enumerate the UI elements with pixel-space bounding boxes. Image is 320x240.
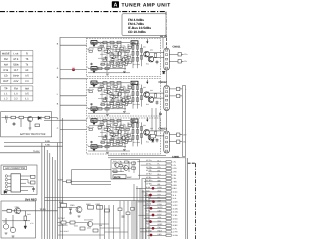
svg-text:L 2: L 2 [4, 98, 8, 101]
svg-text:CN812: CN812 [159, 81, 168, 84]
wire (top bus) [60, 37, 167, 39]
wire (right mid verticals) [152, 108, 160, 131]
transistor Q801 [27, 116, 32, 121]
svg-text:RR-: RR- [158, 183, 162, 186]
resistor R804 [35, 124, 40, 127]
wire (155 rail) [108, 154, 166, 156]
labels bottom [58, 201, 100, 227]
bus wires (left) [42, 38, 63, 240]
boundary bottom-right (dash-dot) [188, 163, 196, 239]
resistor R802 [19, 116, 24, 119]
svg-text:SW+: SW+ [183, 134, 187, 137]
wire (double rail) [45, 198, 167, 201]
wire (B.5V loop) [63, 170, 112, 185]
svg-text:2.0: 2.0 [25, 80, 29, 83]
wire (fan feeders) [134, 184, 149, 239]
svg-text:GND: GND [158, 233, 163, 236]
svg-text:C861: C861 [70, 204, 75, 207]
svg-text:530k: 530k [13, 63, 19, 66]
svg-text:CN801: CN801 [172, 156, 180, 159]
svg-text:D821: D821 [27, 213, 31, 216]
battery protector block [1, 112, 52, 137]
svg-text:ANT.CONT: ANT.CONT [84, 219, 94, 222]
svg-text:A.BU: A.BU [45, 144, 51, 147]
svg-text:0.5: 0.5 [25, 75, 29, 78]
plug SW+ [177, 133, 183, 136]
svg-text:21 FL: 21 FL [173, 227, 178, 230]
svg-text:15 MU: 15 MU [173, 207, 179, 210]
svg-text:TP: TP [4, 88, 8, 91]
capacitor C811 [32, 189, 35, 190]
wire (battery out) [44, 119, 63, 121]
wire B.BU [4, 142, 63, 144]
net labels (fan wires) [146, 159, 153, 232]
svg-text:10.7: 10.7 [13, 69, 18, 72]
wire (158 rail) [108, 157, 186, 159]
svg-text:23 GN: 23 GN [173, 234, 179, 237]
wire (battery protector main) [2, 117, 58, 119]
svg-text:FM: FM [14, 88, 18, 91]
svg-text:MUTE: MUTE [114, 176, 121, 179]
svg-text:AMP.MUTE: AMP.MUTE [58, 224, 68, 227]
svg-text:1.1: 1.1 [25, 98, 29, 101]
svg-text:IF B: IF B [4, 69, 9, 72]
transistor Q831 [115, 163, 120, 168]
svg-text:SP FL-: SP FL- [146, 163, 152, 166]
svg-text:R851 4.7K: R851 4.7K [113, 160, 122, 163]
svg-text:16 GN: 16 GN [173, 211, 179, 214]
svg-text:B.5V: B.5V [58, 179, 63, 182]
wire (pin fan) [136, 162, 166, 236]
signal level table 1 [1, 50, 33, 83]
svg-text:CN811: CN811 [173, 46, 181, 49]
svg-text:0.5: 0.5 [25, 93, 29, 96]
power amp block 2 (rear) [87, 79, 161, 116]
svg-text:L-ch: L-ch [13, 52, 18, 55]
value labels (reg) [3, 206, 34, 230]
svg-text:CN813: CN813 [159, 128, 168, 131]
svg-text:R862: R862 [86, 203, 91, 206]
svg-text:P.CN: P.CN [158, 203, 163, 206]
svg-text:1.0: 1.0 [14, 93, 18, 96]
capacitor C821 (electrolytic) [3, 218, 8, 229]
plug RR+ [177, 87, 183, 90]
resistor R811 [31, 175, 36, 178]
power amp block 1 (front) [87, 38, 161, 76]
plug RR- [177, 94, 183, 97]
resistor R866 [80, 227, 85, 230]
svg-text:87.9: 87.9 [13, 58, 18, 61]
svg-text:RL-: RL- [158, 176, 161, 179]
test points (red) on fan [152, 187, 155, 190]
svg-text:P.CONT: P.CONT [58, 217, 66, 220]
svg-text:FR+: FR+ [184, 53, 187, 56]
svg-text:HAE CONNECTOR: HAE CONNECTOR [5, 167, 25, 170]
resistor R871 [118, 208, 122, 211]
svg-text:SP RR-: SP RR- [146, 183, 152, 186]
svg-text:7 RR: 7 RR [173, 181, 178, 184]
resistor R834 [119, 165, 123, 167]
wire (bottom jogs) [58, 208, 129, 233]
svg-text:FR-: FR- [184, 60, 187, 63]
value labels (mute) [113, 160, 134, 174]
wire (reg bottom) [2, 220, 30, 222]
svg-text:SP FR+: SP FR+ [146, 166, 152, 169]
resistor R803 [45, 116, 50, 119]
transistor Q832 [124, 166, 129, 171]
wire (mute internals) [112, 161, 134, 173]
wire CN811-plugs [169, 54, 178, 61]
svg-text:TA.BU: TA.BU [33, 150, 40, 153]
svg-text:SP RL-: SP RL- [146, 176, 152, 179]
svg-text:FR+: FR+ [158, 166, 161, 169]
svg-text:FM: FM [4, 58, 8, 61]
connector CN801 pins [166, 161, 171, 237]
capacitor C822 (electrolytic) [10, 215, 15, 233]
svg-text:1 FL: 1 FL [173, 161, 177, 164]
svg-text:GND: GND [158, 210, 163, 213]
svg-text:SCL: SCL [158, 220, 162, 223]
svg-text:RR+: RR+ [158, 179, 162, 182]
wire (reg main) [2, 210, 58, 212]
svg-text:FL-: FL- [158, 163, 161, 166]
svg-text:FM R: FM R [146, 226, 151, 229]
svg-text:FR-: FR- [158, 169, 161, 172]
svg-text:B.BU: B.BU [146, 186, 151, 189]
svg-text:SP RL+: SP RL+ [146, 173, 152, 176]
svg-text:R866: R866 [74, 225, 78, 228]
svg-text:SYS.CONT: SYS.CONT [60, 230, 69, 233]
svg-text:R861: R861 [59, 201, 64, 204]
svg-text:C868: C868 [87, 227, 91, 230]
wire TA.BU [0, 152, 40, 154]
power amp block 3 (sub) [87, 118, 161, 154]
svg-text:2 FL: 2 FL [173, 164, 177, 167]
svg-text:19 SC: 19 SC [173, 221, 179, 224]
svg-text:2.2: 2.2 [14, 98, 18, 101]
resistor R835 [125, 161, 129, 163]
resistor R815 [151, 135, 156, 138]
resistor R867 [93, 229, 98, 232]
svg-text:BATTERY PROTECTOR: BATTERY PROTECTOR [20, 133, 46, 136]
resistor R851 [61, 204, 67, 208]
plug FR- [178, 60, 184, 63]
note box: gain values [122, 14, 166, 36]
wire CN812-plugs [169, 89, 176, 96]
capacitor C862 [69, 208, 72, 213]
label A TUNER AMP UNIT [112, 1, 171, 8]
capacitor C802 [13, 119, 31, 128]
svg-text:A: A [113, 3, 117, 9]
test point (red) TP1 [72, 68, 75, 71]
plug FR+ [178, 53, 184, 56]
resistor R852 [88, 206, 94, 210]
svg-text:12 IL: 12 IL [173, 197, 177, 200]
wire ACC [4, 145, 63, 147]
resistor R854 [105, 209, 110, 212]
svg-text:1kHz: 1kHz [13, 75, 19, 78]
svg-text:TUNER AMP UNIT: TUNER AMP UNIT [122, 3, 171, 9]
net labels (left of pins) [158, 159, 164, 236]
signal level table 2 [1, 86, 33, 101]
svg-text:FM.L: FM.L [158, 226, 162, 229]
capacitor C801 [6, 116, 8, 124]
zener D821 [24, 211, 27, 229]
resistor R831 [132, 162, 136, 164]
capacitor C815 [159, 114, 162, 115]
svg-text:18 SD: 18 SD [173, 217, 179, 220]
svg-text:C831: C831 [114, 171, 118, 174]
svg-text:5 RL: 5 RL [173, 174, 177, 177]
diode D811 [4, 191, 7, 194]
resistor R833 [113, 170, 117, 172]
input wires to amp blocks [60, 45, 87, 129]
svg-text:ILL+: ILL+ [158, 193, 162, 196]
svg-text:4.0V: 4.0V [13, 80, 18, 83]
double rail right [186, 158, 188, 239]
svg-text:C822: C822 [10, 226, 14, 229]
svg-text:FL+: FL+ [158, 159, 161, 162]
svg-text:AM: AM [25, 88, 29, 91]
svg-text:14 PC: 14 PC [173, 204, 179, 207]
svg-text:20 BP: 20 BP [173, 224, 179, 227]
svg-text:OUT: OUT [3, 80, 9, 83]
pin numbers [173, 161, 179, 238]
connector pins (head) [5, 175, 24, 192]
diode D801 [38, 116, 41, 119]
wire (conn drops) [163, 38, 167, 132]
svg-text:R: R [26, 52, 28, 55]
svg-text:SP RR+: SP RR+ [146, 179, 153, 182]
svg-text:AMP: AMP [127, 176, 132, 179]
diode D816 [151, 140, 154, 143]
svg-text:9 BU: 9 BU [173, 187, 178, 190]
wire (head out) [24, 176, 34, 192]
svg-text:AM: AM [4, 63, 8, 66]
svg-text:22 FR: 22 FR [173, 231, 179, 234]
svg-text:10 AC: 10 AC [173, 191, 179, 194]
svg-text:13 AN: 13 AN [173, 201, 179, 204]
svg-text:Q821: Q821 [15, 206, 19, 209]
resistor R865 [70, 221, 75, 224]
svg-text:R821: R821 [7, 208, 11, 211]
svg-text:MODE: MODE [2, 52, 10, 55]
ground [29, 128, 32, 130]
mute label [113, 175, 126, 179]
amp mute block [111, 160, 140, 180]
svg-text:R863: R863 [96, 203, 101, 206]
ground (bottom) [69, 213, 80, 217]
svg-text:SW-: SW- [183, 141, 187, 144]
ground (reg) [5, 233, 15, 237]
svg-text:CD 10.0dBs: CD 10.0dBs [128, 30, 146, 34]
resistor R864 [61, 221, 66, 224]
svg-text:FM L: FM L [146, 223, 150, 226]
head connector label [4, 166, 27, 170]
resistor R853 [97, 206, 103, 210]
resistor R872 [126, 212, 130, 215]
head connector block [1, 165, 37, 195]
wire (bottom 235) [58, 234, 104, 236]
resistor R801 [11, 116, 16, 119]
svg-text:MUTE: MUTE [158, 206, 164, 209]
svg-text:CD: CD [4, 75, 8, 78]
capacitor C871 [122, 216, 125, 217]
svg-text:RL+: RL+ [158, 173, 161, 176]
resistor R873 [131, 208, 135, 211]
labels bottom2 [60, 224, 103, 233]
wire (bottom verticals) [100, 179, 146, 239]
resistor R822 [24, 216, 27, 221]
transistor Q852 [87, 221, 92, 226]
diode D815 [162, 71, 165, 74]
plug SW- [177, 140, 183, 143]
svg-text:SP FR-: SP FR- [146, 169, 152, 172]
svg-text:ILL-: ILL- [158, 196, 161, 199]
resistor R832 [132, 167, 136, 169]
shield bar [183, 86, 186, 157]
resistor R840 [67, 180, 72, 183]
svg-text:FM.R: FM.R [158, 230, 163, 233]
svg-text:17 B5: 17 B5 [173, 214, 178, 217]
5V regulator block [1, 201, 36, 238]
IC801 [11, 174, 21, 192]
wire CN813-plugs [169, 135, 176, 142]
svg-text:SP FL+: SP FL+ [146, 159, 152, 162]
svg-text:ILL: ILL [146, 193, 149, 196]
svg-text:6 RL: 6 RL [173, 177, 177, 180]
resistor R812 [31, 181, 36, 184]
svg-text:L 1: L 1 [4, 93, 8, 96]
svg-text:B.BU: B.BU [45, 140, 51, 143]
resistor R821 [7, 209, 12, 212]
svg-text:TA.BU: TA.BU [40, 208, 47, 211]
unit boundary line (dash-dot) [0, 12, 167, 48]
svg-text:4 R.CH: 4 R.CH [121, 153, 128, 156]
svg-text:11 IL: 11 IL [173, 194, 177, 197]
svg-text:8 RR: 8 RR [173, 184, 178, 187]
transistor Q821 [15, 208, 21, 214]
svg-text:BEEP: BEEP [158, 223, 164, 226]
svg-text:B.BU: B.BU [158, 186, 163, 189]
transistor Q851 [76, 207, 82, 213]
